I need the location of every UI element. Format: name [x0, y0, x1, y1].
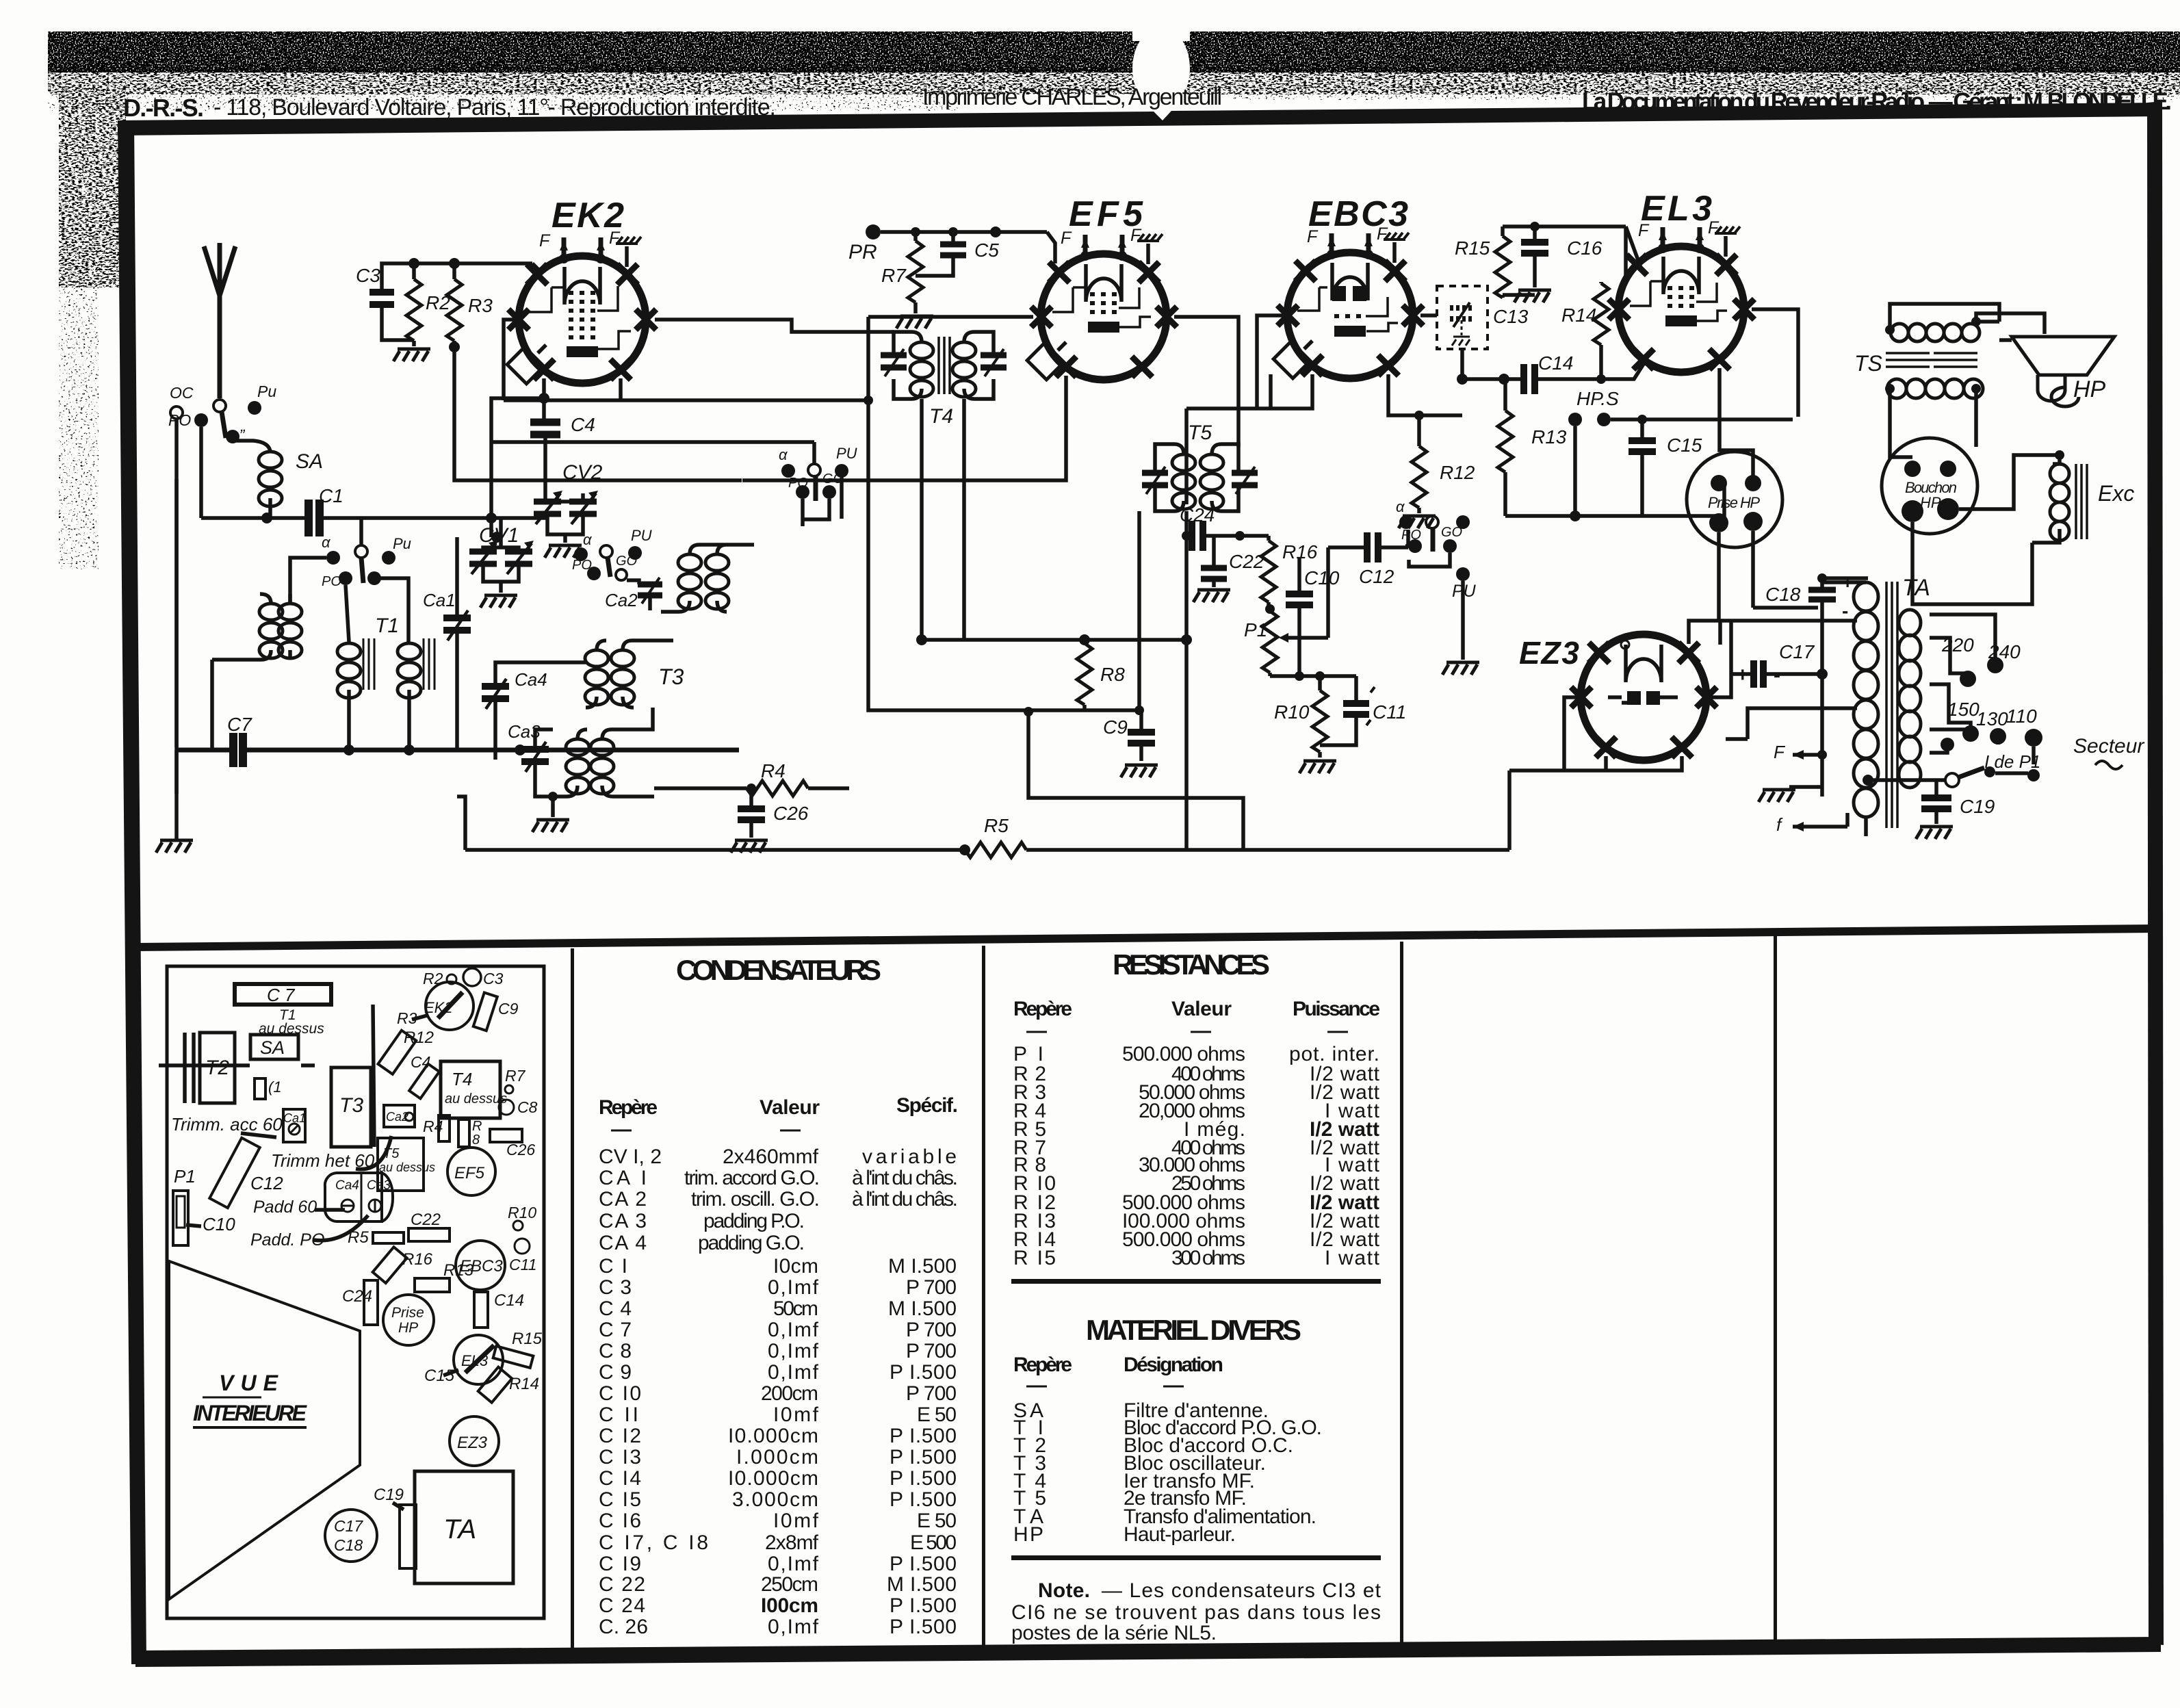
resistor R8 [1077, 643, 1092, 705]
top wire to EL3 [1503, 227, 1641, 268]
svg-text:F: F [1061, 229, 1072, 248]
wire TA left taps [1720, 621, 1857, 739]
svg-text:EZ3: EZ3 [457, 1434, 488, 1452]
resistor R2 [406, 279, 421, 341]
svg-text:Note.: Note. [1038, 1579, 1090, 1602]
svg-text:Valeur: Valeur [1171, 998, 1232, 1020]
svg-text:HP: HP [1920, 494, 1941, 511]
svg-text:I00cm: I00cm [761, 1594, 818, 1617]
R8 box [458, 1120, 469, 1147]
switch cluster 4 [1399, 515, 1413, 529]
wire up from bottom to EZ3 [1507, 771, 1511, 850]
svg-text:C17: C17 [1779, 641, 1815, 662]
svg-text:T2: T2 [205, 1057, 229, 1079]
tube EBC3 [1273, 194, 1423, 378]
svg-text:— Les condensateurs CI3 et: — Les condensateurs CI3 et [1102, 1579, 1381, 1602]
svg-text:I0.000cm: I0.000cm [728, 1467, 818, 1490]
svg-text:C12: C12 [1359, 566, 1394, 587]
svg-text:SA: SA [296, 450, 323, 473]
tube EF5 [1027, 194, 1177, 380]
svg-text:C I3: C I3 [599, 1446, 641, 1468]
svg-text:au dessus: au dessus [379, 1161, 435, 1174]
R4 box [439, 1115, 450, 1141]
svg-text:R4: R4 [423, 1117, 443, 1135]
svg-text:CONDENSATEURS: CONDENSATEURS [676, 954, 881, 986]
terminal PR [866, 224, 881, 240]
svg-text:C3: C3 [483, 970, 504, 987]
svg-text:D.-R.-S.: D.-R.-S. [123, 94, 204, 122]
svg-text:Pu: Pu [257, 383, 276, 400]
wire EK2 left pin to osc area [504, 320, 868, 400]
Secteur terminal [2025, 729, 2042, 747]
speaker trapezoid [169, 1261, 360, 1599]
svg-text:C11: C11 [1373, 701, 1406, 723]
svg-text:C3: C3 [356, 265, 380, 286]
svg-text:HP: HP [2073, 376, 2106, 402]
diagonal rod from C7 to T3 [373, 1005, 374, 1147]
wire EK2 plate to T4 [655, 320, 894, 332]
svg-text:C I2: C I2 [599, 1425, 641, 1447]
tube EK2 [507, 196, 656, 384]
svg-text:C4: C4 [571, 414, 595, 435]
svg-text:OC: OC [170, 384, 194, 402]
svg-text:M I.500: M I.500 [888, 1255, 957, 1278]
svg-text:300 ohms: 300 ohms [1171, 1247, 1245, 1269]
C8 [499, 1100, 514, 1115]
svg-text:(1: (1 [268, 1078, 282, 1096]
svg-text:150: 150 [1947, 699, 1980, 720]
svg-text:Ca2: Ca2 [605, 590, 638, 610]
TA box [415, 1471, 513, 1583]
svg-text:I watt: I watt [1325, 1247, 1380, 1269]
svg-text:T5: T5 [1188, 422, 1212, 444]
svg-text:CA 2: CA 2 [599, 1188, 647, 1211]
svg-text:CV2: CV2 [562, 461, 603, 484]
chassis outline box [167, 966, 544, 1618]
svg-text:F: F [1774, 742, 1786, 762]
switch cluster 2 [574, 547, 588, 561]
svg-text:P1: P1 [174, 1166, 196, 1187]
frame top bar [118, 103, 2162, 135]
svg-text:8: 8 [472, 1133, 480, 1148]
svg-text:PO: PO [572, 558, 592, 573]
svg-text:C14: C14 [494, 1291, 524, 1310]
svg-text:α: α [583, 531, 593, 548]
svg-text:M I.500: M I.500 [888, 1297, 957, 1320]
Prise HP plug [1687, 452, 1782, 547]
svg-text:E 50: E 50 [917, 1403, 957, 1426]
svg-text:—: — [1327, 1020, 1348, 1042]
wire EBC3 down / triode plate to C14 line [1388, 349, 1462, 415]
svg-text:R3: R3 [468, 295, 493, 316]
svg-text:—: — [1026, 1374, 1047, 1397]
svg-text:PR: PR [848, 241, 877, 263]
svg-text:C12: C12 [250, 1173, 283, 1193]
svg-text:200cm: 200cm [761, 1382, 818, 1405]
svg-text:C10: C10 [203, 1214, 235, 1234]
svg-text:C I5: C I5 [599, 1488, 641, 1511]
svg-text:CA 3: CA 3 [599, 1210, 647, 1232]
wire step from C9 line down to bottom run [1028, 712, 1243, 851]
wire T2 bottom to bus [210, 660, 214, 750]
svg-text:C24: C24 [342, 1287, 372, 1306]
R12 slanted [378, 1031, 416, 1074]
capacitor C9 [1085, 708, 1141, 712]
svg-text:F: F [1638, 221, 1650, 240]
svg-text:C 4: C 4 [599, 1297, 632, 1320]
R13 box [415, 1278, 450, 1292]
T3 bottom coil pair [566, 739, 589, 794]
svg-text:C16: C16 [1567, 237, 1602, 259]
svg-text:Spécif.: Spécif. [896, 1094, 958, 1117]
svg-text:P I.500: P I.500 [890, 1553, 957, 1575]
svg-text:C15: C15 [1667, 435, 1702, 456]
svg-text:C 24: C 24 [599, 1594, 645, 1617]
svg-text:C5: C5 [974, 240, 999, 261]
wire switch to T2 [290, 558, 326, 604]
svg-text:trim. accord G.O.: trim. accord G.O. [684, 1167, 820, 1189]
svg-text:Valeur: Valeur [760, 1096, 820, 1119]
EL3 circle with R15 R14 C15 [454, 1335, 503, 1384]
svg-text:T1: T1 [375, 614, 399, 637]
svg-text:R: R [472, 1119, 482, 1134]
svg-text:Exc: Exc [2098, 481, 2134, 506]
EF5 circle [447, 1148, 495, 1195]
svg-text:2x460mmf: 2x460mmf [723, 1146, 819, 1168]
wire PO down to C1 bus [199, 427, 203, 518]
C17 C18 circle [325, 1510, 377, 1562]
svg-text:R7: R7 [505, 1067, 526, 1085]
svg-text:MATERIEL DIVERS: MATERIEL DIVERS [1086, 1314, 1301, 1346]
ground under T3 [551, 797, 555, 817]
svg-text:C15: C15 [424, 1367, 455, 1385]
svg-text:Repère: Repère [1013, 1354, 1072, 1376]
svg-text:Imprimerie CHARLES, Argenteuil: Imprimerie CHARLES, Argenteuill [922, 84, 1222, 110]
svg-text:EBC3: EBC3 [1308, 194, 1408, 234]
svg-text:50cm: 50cm [773, 1297, 818, 1320]
svg-text:P 700: P 700 [906, 1340, 957, 1362]
svg-text:C 22: C 22 [599, 1573, 645, 1596]
svg-text:VUE: VUE [219, 1371, 279, 1395]
svg-text:C11: C11 [509, 1256, 537, 1273]
svg-text:E 50: E 50 [917, 1510, 957, 1532]
svg-text:T4: T4 [929, 405, 953, 428]
svg-text:P1: P1 [1244, 619, 1267, 640]
divider v4 [1774, 935, 1777, 1642]
svg-text:C26: C26 [506, 1141, 535, 1159]
HP horn [2012, 337, 2114, 406]
svg-text:PO: PO [322, 574, 341, 589]
svg-text:R4: R4 [761, 760, 786, 781]
wire node to EK2 grid pin [414, 263, 541, 272]
page bottom bar [135, 1637, 2161, 1667]
wires EZ3 [1509, 697, 1581, 771]
svg-text:C26: C26 [773, 803, 809, 824]
svg-text:C9: C9 [498, 1000, 519, 1018]
T3 box [331, 1067, 371, 1147]
EZ3 circle [450, 1416, 499, 1466]
svg-text:—: — [1026, 1020, 1047, 1042]
svg-text:-: - [1842, 600, 1848, 621]
svg-text:F: F [539, 231, 551, 250]
svg-text:à l'int du châs.: à l'int du châs. [852, 1167, 958, 1189]
svg-text:PU: PU [836, 445, 857, 462]
T5 au dessus box [378, 1138, 424, 1191]
svg-text:EL3: EL3 [1641, 189, 1712, 229]
wire EK2 bottom-left pin down to C4 [542, 378, 546, 398]
divider v3 [1400, 942, 1403, 1646]
resistor R10 [1312, 690, 1327, 752]
svg-text:à l'int du châs.: à l'int du châs. [852, 1188, 958, 1211]
svg-text:CI6 ne se trouvent pas da: CI6 ne se trouvent pas dans tous les [1011, 1601, 1381, 1624]
svg-text:C4: C4 [411, 1053, 430, 1071]
svg-text:E 500: E 500 [910, 1531, 957, 1554]
svg-text:TA: TA [1902, 575, 1930, 601]
svg-text:TA: TA [443, 1514, 476, 1544]
main bus wire [177, 748, 739, 753]
svg-text:—: — [780, 1118, 801, 1141]
svg-text:SA: SA [260, 1037, 285, 1058]
ground left [174, 750, 179, 839]
svg-text:EBC3: EBC3 [460, 1257, 503, 1276]
svg-text:Désignation: Désignation [1124, 1354, 1223, 1376]
svg-text:C I4: C I4 [599, 1467, 641, 1490]
svg-text:C 8: C 8 [599, 1340, 632, 1362]
svg-text:Haut-parleur.: Haut-parleur. [1124, 1523, 1236, 1546]
svg-text:R14: R14 [1561, 305, 1596, 326]
svg-text:C19: C19 [374, 1486, 404, 1504]
svg-text:HP: HP [398, 1320, 418, 1336]
svg-text:Ca1: Ca1 [423, 590, 456, 610]
wire EF5 bottom to AGC [742, 376, 1066, 480]
ground between F arrows [1789, 785, 1822, 789]
tube EL3 [1609, 189, 1754, 372]
svg-text:PO: PO [1401, 528, 1421, 543]
terminal PU to ground [1456, 567, 1470, 581]
svg-text:R15: R15 [512, 1330, 543, 1348]
svg-text:C I: C I [599, 1255, 627, 1278]
svg-text:T4: T4 [452, 1069, 472, 1089]
svg-text:P 700: P 700 [906, 1382, 957, 1405]
svg-text:—: — [611, 1118, 632, 1141]
svg-text:Ca3: Ca3 [367, 1178, 391, 1193]
SA box [250, 1035, 298, 1059]
svg-text:C. 26: C. 26 [599, 1616, 648, 1638]
C14 bar [474, 1292, 488, 1328]
svg-text:EZ3: EZ3 [1519, 635, 1579, 671]
svg-text:padding P.O.: padding P.O. [703, 1210, 805, 1232]
wires from Prise HP down [1719, 531, 1753, 608]
TS wires to Bouchon [1890, 304, 1999, 330]
tube EZ3 [1519, 634, 1717, 760]
svg-text:R7: R7 [881, 265, 907, 286]
svg-text:P I.500: P I.500 [890, 1488, 957, 1511]
resistor R13 [1498, 411, 1513, 472]
svg-text:C7: C7 [227, 714, 252, 735]
antenna [204, 243, 235, 398]
svg-text:C9: C9 [1103, 716, 1128, 738]
top scanning noise band [48, 25, 2180, 569]
svg-text:110: 110 [2006, 706, 2037, 727]
svg-text:M I.500: M I.500 [887, 1573, 957, 1596]
wire diode return to P1 area [1186, 374, 1312, 504]
oscillator coils T3 top pair [678, 554, 701, 609]
svg-text:R12: R12 [404, 1028, 434, 1047]
C26 box [490, 1129, 522, 1142]
svg-text:P 700: P 700 [906, 1319, 957, 1341]
T2 box [200, 1033, 235, 1103]
svg-text:Repère: Repère [599, 1096, 658, 1119]
svg-text:R I5: R I5 [1013, 1247, 1056, 1269]
svg-text:CV I, 2: CV I, 2 [599, 1146, 662, 1168]
svg-text:Ca4: Ca4 [515, 669, 547, 690]
wire R3 down to AGC line [454, 347, 742, 480]
wire bottom right long [1507, 768, 1511, 773]
wires bouchon to exc [1959, 455, 2060, 509]
svg-text:R5: R5 [348, 1228, 369, 1247]
C4 slanted [409, 1064, 439, 1099]
svg-text:Secteur: Secteur [2073, 735, 2144, 758]
dial axis line [159, 1063, 315, 1067]
C11 circle [515, 1239, 530, 1254]
Ca4 Ca3 rounded block [325, 1173, 382, 1221]
svg-text:au dessus: au dessus [445, 1091, 507, 1107]
svg-text:C19: C19 [1960, 796, 1995, 817]
resistor R12 [1412, 446, 1427, 508]
EBC3 circle [456, 1241, 505, 1290]
svg-text:HP.S: HP.S [1576, 388, 1619, 409]
svg-text:P 700: P 700 [906, 1276, 957, 1299]
T4 au dessus box [441, 1061, 500, 1118]
Prise HP circle [383, 1295, 434, 1345]
R16 slanted [373, 1247, 407, 1283]
svg-text:Padd 60: Padd 60 [253, 1198, 317, 1217]
svg-text:PO: PO [168, 411, 191, 429]
capacitor C13 dashed box [1437, 286, 1529, 349]
svg-text:R16: R16 [402, 1250, 433, 1269]
svg-text:Prise: Prise [391, 1305, 424, 1321]
C9 slanted bar [473, 993, 497, 1031]
svg-text:C22: C22 [1229, 551, 1264, 572]
svg-text:α: α [779, 446, 788, 463]
wire EF5 plate right then down to T5 [1174, 317, 1238, 447]
svg-text:R10: R10 [508, 1204, 536, 1221]
white fold gap in noise band [1132, 27, 1190, 109]
svg-text:T5: T5 [383, 1146, 400, 1161]
svg-text:R8: R8 [1100, 664, 1125, 685]
svg-text:α: α [1396, 498, 1405, 515]
condenser C7 box [235, 984, 331, 1005]
svg-text:C13: C13 [1493, 306, 1529, 327]
svg-text:R14: R14 [509, 1375, 539, 1393]
wire EBC3 left to T5 top [1257, 315, 1288, 409]
C19 bar [400, 1505, 416, 1568]
svg-text:PO: PO [788, 476, 808, 491]
Bouchon HP plug [1882, 438, 1977, 534]
C24 bar [364, 1280, 378, 1325]
svg-text:P I.500: P I.500 [890, 1446, 957, 1468]
svg-text:C I0: C I0 [599, 1382, 641, 1405]
svg-text:C22: C22 [411, 1211, 441, 1229]
svg-text:—: — [1163, 1374, 1184, 1397]
svg-text:R12: R12 [1440, 462, 1475, 483]
svg-text:EK2: EK2 [424, 999, 453, 1016]
svg-text:C 9: C 9 [599, 1361, 632, 1384]
svg-text:C I9: C I9 [599, 1553, 641, 1575]
divider v1 [571, 948, 574, 1653]
svg-text:T3: T3 [658, 664, 684, 689]
svg-text:R15: R15 [1455, 237, 1490, 259]
C12 slanted [209, 1138, 259, 1208]
svg-text:PU: PU [631, 527, 652, 544]
svg-text:C8: C8 [517, 1098, 538, 1116]
coil SA [259, 452, 282, 506]
svg-text:P I.500: P I.500 [890, 1425, 957, 1447]
svg-text:C I6: C I6 [599, 1510, 641, 1532]
wire TA bottom tap to switch [1868, 778, 1930, 782]
svg-text:R5: R5 [984, 815, 1009, 836]
svg-text:CA 4: CA 4 [599, 1232, 647, 1254]
header text [123, 84, 2172, 122]
wire left rail [174, 479, 179, 794]
small pot rect [255, 1078, 265, 1099]
svg-text:I0.000cm: I0.000cm [728, 1425, 818, 1447]
wave switch cluster 2 (antenna coil selector) [355, 545, 367, 558]
Ca2 box [384, 1105, 415, 1127]
svg-text:R13: R13 [1531, 426, 1567, 448]
wire from OC to left rail [174, 419, 179, 747]
long bottom wire left part [465, 848, 965, 852]
svg-text:I.000cm: I.000cm [736, 1446, 818, 1468]
svg-text:P I.500: P I.500 [890, 1467, 957, 1490]
svg-text:postes de la série NL5.: postes de la série NL5. [1011, 1622, 1217, 1644]
R8 top wire from T4 [922, 638, 1186, 642]
svg-text:R10: R10 [1274, 701, 1310, 723]
svg-text:INTERIEURE: INTERIEURE [193, 1401, 308, 1425]
svg-text:C10: C10 [1304, 567, 1340, 588]
wire EL3 plate right down to prise [1752, 309, 1798, 417]
svg-text:„: „ [240, 417, 246, 435]
frame schematic bottom bar [135, 924, 2155, 951]
svg-text:RESISTANCES: RESISTANCES [1113, 948, 1270, 981]
svg-text:2x8mf: 2x8mf [765, 1531, 819, 1554]
switch cluster 3 (near T4) [491, 442, 857, 526]
svg-text:padding G.O.: padding G.O. [698, 1232, 805, 1254]
potentiometer P1 [1262, 611, 1277, 673]
svg-text:P I.500: P I.500 [890, 1594, 957, 1617]
divider v2 [982, 946, 985, 1652]
svg-text:C24: C24 [1180, 504, 1215, 526]
R5 small box [373, 1232, 404, 1243]
svg-text:250cm: 250cm [761, 1573, 818, 1596]
svg-text:C18: C18 [1765, 584, 1801, 605]
svg-text:trim. oscill. G.O.: trim. oscill. G.O. [691, 1188, 820, 1211]
svg-text:C 3: C 3 [599, 1276, 632, 1299]
wire T5 secondary bottom down [1139, 511, 1186, 850]
frame right bar [2147, 101, 2164, 1645]
svg-text:3.000cm: 3.000cm [732, 1488, 818, 1511]
svg-text:F: F [1307, 227, 1319, 246]
wire PR line into EF5 [1047, 232, 1055, 263]
resistor R3 [447, 279, 462, 341]
svg-text:C17: C17 [334, 1517, 363, 1535]
svg-text:Ca4: Ca4 [335, 1178, 359, 1193]
frame left bar [118, 120, 146, 1664]
svg-text:Ca1: Ca1 [283, 1111, 306, 1125]
svg-text:EF5: EF5 [454, 1164, 485, 1182]
wire EL3 cathode down [1720, 368, 1753, 483]
svg-text:P I.500: P I.500 [890, 1616, 957, 1638]
